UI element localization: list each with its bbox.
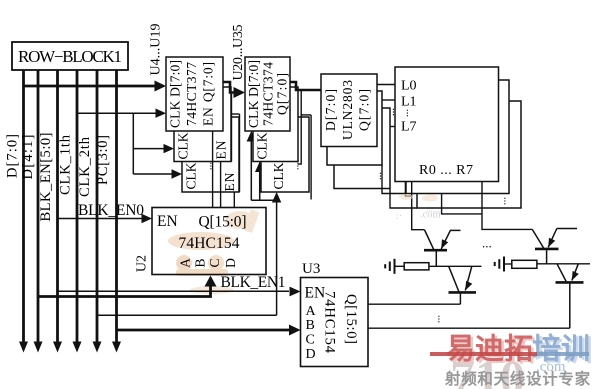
svg-text:培训: 培训 — [532, 332, 590, 366]
arrow bus CLK_1th end — [73, 342, 82, 353]
svg-text::·: :· — [396, 211, 402, 222]
bus line PC[3:0] — [115, 70, 118, 342]
register U4 74HCT377 — [166, 57, 223, 131]
svg-text:L0: L0 — [401, 79, 417, 94]
wire EN riser second 377 to U2 — [220, 162, 222, 208]
wire R feed to Q1 collector — [412, 182, 425, 230]
svg-text:CLK_2th: CLK_2th — [77, 136, 93, 197]
svg-text:U2: U2 — [135, 255, 150, 272]
svg-text:.com: .com — [420, 210, 441, 221]
svg-text:D[7:0]: D[7:0] — [323, 89, 338, 131]
wire ULN Q to L0 — [377, 84, 395, 86]
arrow Q bus into U20 D[7:0] — [234, 87, 246, 98]
arrow bus CLK_2th end — [93, 342, 102, 353]
svg-text:C: C — [306, 333, 315, 348]
arrow CLK into second 374 — [255, 162, 264, 173]
wire tap branch right — [301, 114, 311, 116]
wire R0 stub from module — [405, 182, 411, 197]
svg-text:EN: EN — [214, 140, 229, 159]
svg-text:BLK_EN0: BLK_EN0 — [78, 202, 144, 219]
wire CLK_2th branch — [251, 199, 276, 201]
svg-text:EN: EN — [222, 172, 237, 191]
arrow data bus into U4 D[7:0] — [155, 81, 167, 92]
wire tap down to second 377 corner — [231, 94, 233, 162]
arrow CLK into second 377 — [164, 144, 175, 153]
wire tap down along third 377 — [239, 114, 241, 192]
wire tap down to second 374 corner — [298, 91, 301, 164]
LED module third (back) — [417, 101, 521, 208]
wire D[4:1] to U2 address bus — [38, 286, 211, 297]
wire PC[3:0] to U3 address bus — [117, 329, 291, 332]
arrow CLK_1th into U4 CLK — [156, 109, 167, 118]
decoder U3 74HC154 — [301, 278, 369, 367]
svg-text:CLK: CLK — [176, 132, 191, 159]
transistor Q2 — [449, 266, 477, 304]
wire Q bus 377 to 374 — [223, 82, 234, 93]
svg-text:A: A — [306, 304, 317, 319]
svg-text:Q[7:0]: Q[7:0] — [357, 89, 372, 131]
svg-text:Q[15:0]: Q[15:0] — [343, 294, 359, 344]
resistor R1 — [404, 263, 429, 270]
svg-text:U4...U19: U4...U19 — [149, 24, 164, 76]
svg-text:A: A — [178, 258, 193, 268]
wire CLK_1th to U4 — [77, 112, 157, 114]
svg-text:ULN2803: ULN2803 — [340, 80, 355, 140]
transistor Q1 — [424, 230, 461, 266]
wire BLK_EN1 — [58, 290, 290, 292]
resistor R2 — [512, 260, 537, 268]
svg-text:...: ... — [497, 197, 509, 206]
bus line D[7:0] — [22, 70, 25, 342]
bus line BLK_EN[5:0] — [56, 70, 59, 342]
svg-text:BLK_EN[5:0]: BLK_EN[5:0] — [38, 133, 54, 222]
svg-text:CLK D[7:0]: CLK D[7:0] — [246, 60, 261, 128]
wire R stub module2 — [442, 194, 482, 214]
svg-text:...: ... — [431, 315, 443, 324]
arrow address bus into U2 bottom — [205, 276, 217, 287]
svg-text:BLK_EN1: BLK_EN1 — [221, 274, 286, 291]
svg-text:U3: U3 — [302, 261, 320, 277]
svg-text:R0 ... R7: R0 ... R7 — [419, 163, 473, 178]
svg-text:74HC154: 74HC154 — [179, 235, 240, 252]
svg-text:CLK: CLK — [184, 162, 199, 189]
wire CLK_2th lower — [97, 314, 277, 316]
arrow CLK into third 377 — [172, 169, 183, 178]
svg-text:EN: EN — [157, 213, 178, 230]
register 74HCT377 third (back) — [182, 117, 239, 192]
wire R1 to ground — [394, 265, 404, 267]
wire EN riser first 377 to U2 — [212, 131, 214, 208]
LED module second — [406, 80, 509, 194]
bus line D[4:1] — [37, 70, 40, 342]
svg-text:C: C — [207, 258, 222, 267]
ground G2 — [495, 257, 504, 272]
svg-text:CLK D[7:0]: CLK D[7:0] — [168, 60, 183, 128]
svg-text:L1: L1 — [401, 95, 417, 110]
wire tap down dangling — [310, 115, 312, 200]
ground G1 — [385, 259, 394, 274]
wire CLK_1th to second 377 — [133, 148, 164, 150]
watermark logo bottom right — [430, 332, 593, 389]
wire CLK_2th riser — [276, 200, 278, 315]
bus line CLK_1th — [76, 70, 79, 342]
transistor Q4 — [556, 264, 584, 328]
svg-text:Q[7:0]: Q[7:0] — [275, 73, 290, 115]
LED module first — [395, 67, 499, 182]
svg-text:易迪拓: 易迪拓 — [446, 333, 533, 366]
svg-text:CLK: CLK — [271, 162, 286, 189]
wire Q3 base rail — [537, 263, 590, 265]
svg-text:D: D — [306, 347, 316, 362]
svg-text:74HCT374: 74HCT374 — [261, 62, 276, 126]
svg-text:U20...U35: U20...U35 — [231, 25, 246, 81]
wire data bus to U4 — [24, 85, 156, 88]
wire R feed to Q3 collector — [482, 182, 532, 230]
block ROW-BLOCK1 — [12, 42, 128, 70]
svg-text:CLK_1th: CLK_1th — [58, 134, 74, 195]
arrow bus PC[3:0] end — [112, 342, 121, 353]
arrow bus D[4:1] end — [34, 342, 43, 353]
arrow address bus into U3 — [289, 325, 301, 336]
driver ULN2803 second — [327, 91, 382, 165]
svg-text:PC[3:0]: PC[3:0] — [95, 135, 111, 185]
register 74HCT374 second — [253, 87, 298, 162]
wire ULN3 bottom to module3 — [390, 189, 417, 209]
wire CLK_1th riser — [132, 113, 134, 174]
svg-text:...: ... — [482, 236, 492, 251]
svg-text:B: B — [306, 318, 315, 333]
svg-text:...: ... — [290, 162, 302, 171]
wire tap branch — [232, 113, 240, 115]
wire Q1 base rail — [429, 265, 482, 267]
transistor Q3 — [532, 229, 577, 264]
wire ULN2 bottom to module2 — [382, 165, 406, 194]
arrow CLK_2th into third 374 — [272, 192, 281, 203]
wire BLK_EN0 — [58, 218, 143, 220]
svg-text:ROW−BLOCK1: ROW−BLOCK1 — [18, 47, 122, 66]
watermark smudges behind U2 — [168, 209, 259, 294]
wire CLK riser to first 374 — [250, 139, 252, 200]
bus line CLK_2th — [96, 70, 99, 342]
wire U3 Q to first transistor pair — [368, 303, 460, 305]
driver ULN2803 — [321, 74, 377, 147]
wire R2 to ground — [504, 263, 512, 265]
svg-text:74HC154: 74HC154 — [322, 291, 338, 354]
register 74HCT377 second — [174, 87, 231, 162]
watermark ghost middle — [396, 194, 442, 222]
arrow BLK_EN1 into U3 EN — [290, 287, 301, 297]
wire ULN Q to L1 — [382, 99, 395, 101]
svg-text:74HCT377: 74HCT377 — [184, 62, 199, 126]
svg-text:D[7:0]: D[7:0] — [5, 134, 21, 178]
wire EN riser third 377 to U2 — [233, 192, 235, 208]
decoder U2 74HC154 — [152, 208, 266, 275]
svg-text:B: B — [193, 258, 208, 267]
svg-text:CLK: CLK — [255, 132, 270, 159]
svg-text:Q[15:0]: Q[15:0] — [199, 214, 247, 231]
svg-text:L7: L7 — [401, 120, 417, 135]
arrow bus BLK_EN[5:0] end — [53, 342, 62, 353]
wire CLK riser to second 374 — [259, 170, 261, 201]
svg-text:...: ... — [399, 109, 411, 118]
arrow BLK_EN0 into U2 EN — [142, 214, 153, 223]
svg-text:D[4:1]: D[4:1] — [20, 135, 36, 180]
wire ULN Q to L7 — [390, 126, 395, 128]
arrow CLK into first 374 — [247, 131, 256, 142]
svg-text:EN Q[7:0]: EN Q[7:0] — [201, 62, 216, 126]
register 74HCT374 third (back) — [261, 117, 309, 192]
svg-text:射频和天线设计专家: 射频和天线设计专家 — [444, 369, 591, 388]
wire Q bus 374 to ULN — [290, 82, 321, 90]
register U20 74HCT374 — [245, 57, 290, 131]
wire CLK_1th to third 377 — [133, 173, 172, 175]
svg-text:D: D — [223, 258, 238, 268]
wire U3 Q to second transistor pair — [368, 327, 570, 329]
driver ULN2803 third (back) — [334, 108, 390, 189]
arrow bus D[7:0] end — [19, 342, 28, 353]
